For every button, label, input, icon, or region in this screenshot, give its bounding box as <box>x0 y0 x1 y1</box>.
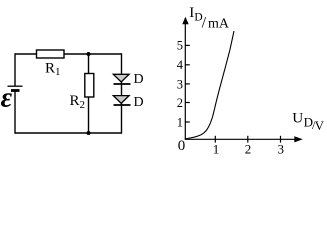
resistor R2 <box>85 74 94 98</box>
svg-text:1: 1 <box>213 142 220 157</box>
graph x-axis <box>185 138 296 140</box>
y tick 3 <box>185 83 190 85</box>
svg-text:V: V <box>315 118 325 133</box>
svg-text:3: 3 <box>177 78 183 92</box>
wire top <box>15 53 122 55</box>
wire left lower <box>14 91 16 134</box>
svg-text:1: 1 <box>55 66 61 78</box>
y tick 4 <box>185 64 190 66</box>
diode characteristic curve <box>186 31 235 139</box>
battery EMF source plate long <box>8 85 23 87</box>
wire bottom <box>15 132 122 134</box>
svg-text:2: 2 <box>245 142 252 157</box>
svg-text:D: D <box>134 72 144 87</box>
svg-text:2: 2 <box>177 96 183 110</box>
graph x-axis arrowhead <box>294 136 303 142</box>
svg-text:mA: mA <box>208 16 230 31</box>
battery EMF source plate short thick <box>11 89 20 92</box>
diode D1 cathode bar <box>114 83 131 85</box>
resistor R1 <box>37 50 65 58</box>
svg-text:4: 4 <box>177 58 184 72</box>
svg-text:0: 0 <box>178 138 186 154</box>
x tick 3 <box>280 136 282 143</box>
node junction bottom <box>87 131 91 135</box>
y tick 1 <box>185 121 190 123</box>
y tick 2 <box>185 102 190 104</box>
graph y-axis arrowhead <box>182 17 188 25</box>
diode D2 triangle <box>113 96 129 104</box>
x tick 2 <box>247 136 249 143</box>
svg-text:5: 5 <box>177 39 183 53</box>
node junction top <box>87 52 91 56</box>
svg-text:/: / <box>202 15 207 32</box>
x tick 1 <box>214 136 216 143</box>
svg-text:D: D <box>134 95 144 110</box>
svg-text:ε: ε <box>1 83 13 114</box>
svg-text:2: 2 <box>80 99 86 111</box>
svg-text:1: 1 <box>177 115 183 129</box>
wire right diode branch <box>121 53 123 133</box>
wire middle R2 branch <box>88 54 90 133</box>
svg-text:R: R <box>70 93 80 109</box>
diode D1 triangle <box>113 74 129 82</box>
diode D2 cathode bar <box>114 104 131 106</box>
wire left upper <box>14 53 16 86</box>
graph y-axis <box>184 20 186 139</box>
svg-text:3: 3 <box>278 142 285 157</box>
svg-text:R: R <box>45 61 55 77</box>
svg-text:U: U <box>292 109 303 126</box>
y tick 5 <box>185 44 190 46</box>
